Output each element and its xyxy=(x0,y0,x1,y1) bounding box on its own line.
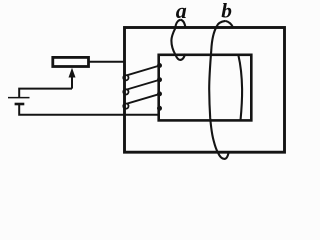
loop b front side xyxy=(209,21,229,159)
rheostat R box xyxy=(53,57,89,66)
loop b back side seen through window xyxy=(238,55,242,121)
iron core window xyxy=(159,55,252,121)
coil L right-edge bumps xyxy=(158,64,162,111)
battery B1 plates xyxy=(8,98,30,104)
wire battery top to rheostat wiper xyxy=(19,89,72,98)
rheostat wiper arrowhead xyxy=(69,68,76,78)
svg-text:b: b xyxy=(221,0,232,22)
svg-text:a: a xyxy=(176,0,187,23)
loop b back side upper stub xyxy=(225,21,233,28)
loop a front side xyxy=(171,20,185,60)
iron core outer boundary xyxy=(125,28,285,153)
wire battery bottom to coil xyxy=(19,104,159,115)
coil L left-edge loops xyxy=(123,75,128,109)
loop a back side upper stub xyxy=(181,20,186,28)
coil L slanted turns xyxy=(127,66,158,104)
wire rheostat to core xyxy=(89,61,125,63)
rheostat wiper arrow stem xyxy=(71,76,73,89)
